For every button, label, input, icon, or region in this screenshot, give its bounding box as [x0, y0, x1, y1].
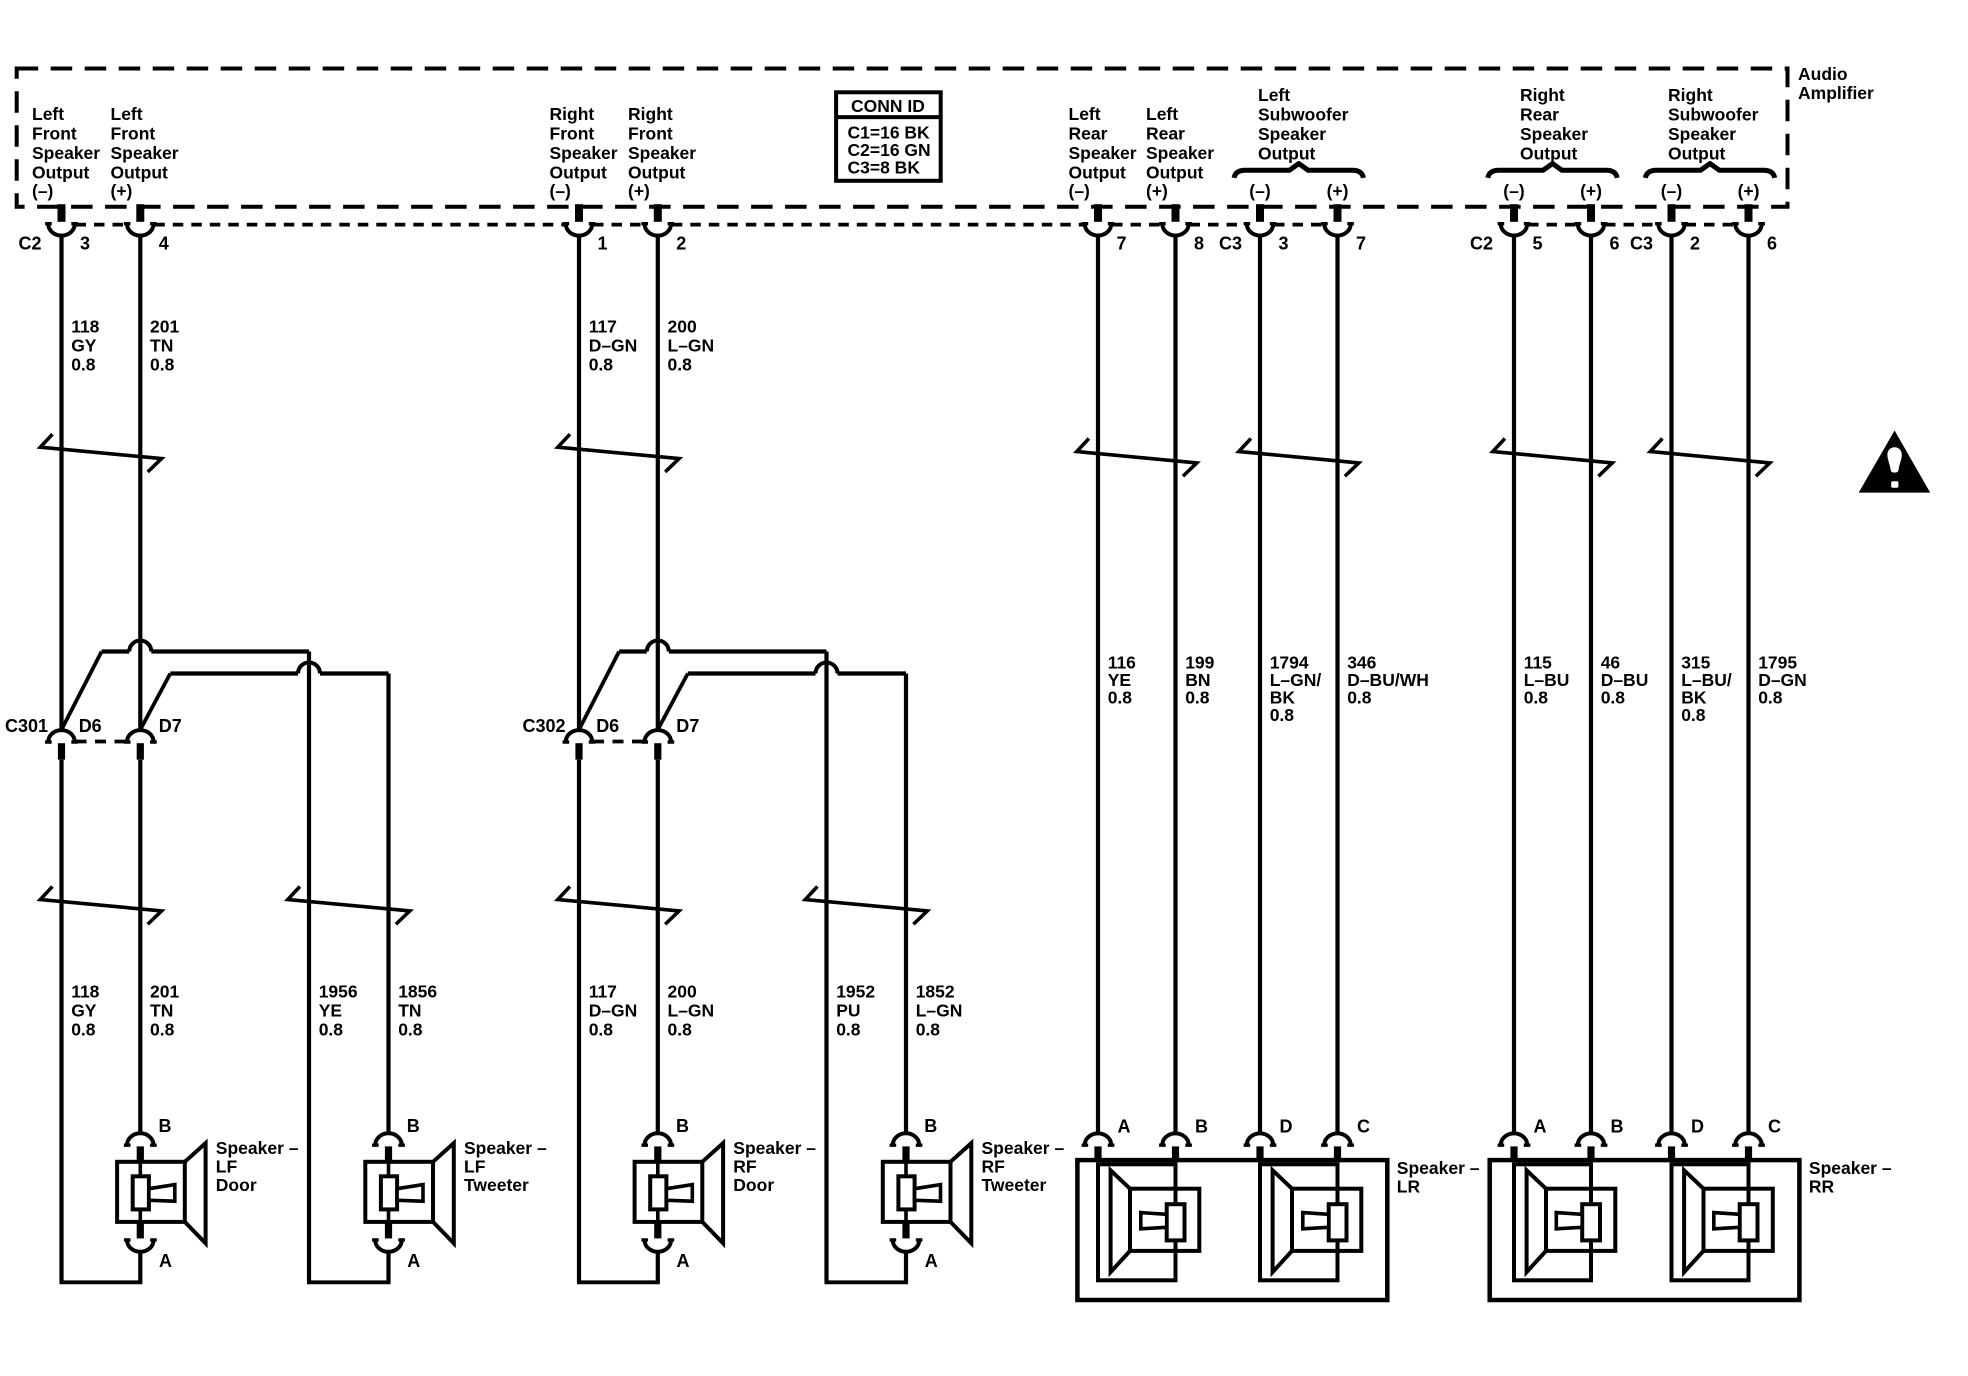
splice line from C302 D6 to tweeter wire: [619, 649, 647, 653]
amp pin 6 at x=1748.5: [1745, 204, 1753, 222]
svg-text:A: A: [925, 1251, 938, 1271]
svg-text:D: D: [1691, 1117, 1704, 1137]
svg-text:Right: Right: [550, 104, 595, 124]
svg-text:Output: Output: [550, 163, 608, 183]
brace right subwoofer speaker output label: [1645, 164, 1774, 178]
svg-text:C: C: [1357, 1117, 1370, 1137]
svg-text:0.8: 0.8: [1524, 688, 1549, 708]
amp pin 6 at x=1591: [1587, 204, 1595, 222]
svg-text:0.8: 0.8: [1758, 688, 1783, 708]
tweeter feed wire 1: [307, 652, 311, 1283]
splice line from C302 D7 to tweeter wire: [688, 671, 816, 675]
speaker RR pin A: [1501, 1133, 1527, 1145]
svg-text:0.8: 0.8: [668, 1020, 693, 1040]
svg-text:B: B: [1611, 1117, 1624, 1137]
break symbol rear pair 1514: [1493, 440, 1613, 475]
svg-text:0.8: 0.8: [150, 1020, 175, 1040]
speaker - RF Door pin A: [654, 1222, 661, 1239]
svg-text:C2: C2: [1470, 234, 1493, 254]
svg-text:(+): (+): [1580, 181, 1602, 201]
amp pin 3 at x=1260: [1256, 204, 1264, 222]
amp pin 4 at x=140.3: [136, 204, 144, 222]
svg-text:Speaker: Speaker: [111, 143, 179, 163]
svg-text:CONN ID: CONN ID: [851, 96, 925, 116]
break symbol upper pair LF: [40, 436, 161, 471]
splice line from C301 D6 to tweeter wire: [102, 649, 130, 653]
svg-text:C301: C301: [5, 716, 48, 736]
speaker - LF Door: [117, 1162, 185, 1222]
wire 118 GY lower segment: [59, 760, 63, 1283]
svg-text:7: 7: [1117, 234, 1127, 254]
svg-text:GY: GY: [71, 1001, 97, 1021]
connector C301 pin D7: [127, 730, 153, 742]
svg-text:Rear: Rear: [1069, 124, 1108, 144]
wire 1795 right subwoofer (+) wire: [1746, 234, 1750, 1134]
amp pin 2 at x=657.8: [654, 204, 662, 222]
diagonal into C302 D7: [658, 674, 687, 729]
svg-text:118: 118: [71, 317, 99, 337]
svg-text:B: B: [407, 1116, 420, 1136]
break symbol rear pair 1260: [1239, 440, 1359, 475]
svg-text:Left: Left: [1069, 104, 1101, 124]
svg-text:Door: Door: [733, 1175, 774, 1195]
svg-text:Output: Output: [32, 163, 90, 183]
svg-text:D–GN: D–GN: [589, 1001, 638, 1021]
svg-text:Output: Output: [1520, 144, 1578, 164]
svg-text:0.8: 0.8: [589, 355, 614, 375]
amp pin 5 at x=1514: [1510, 204, 1518, 222]
svg-text:GY: GY: [71, 336, 97, 356]
speaker - LR left driver: [1098, 1164, 1176, 1280]
svg-text:Subwoofer: Subwoofer: [1668, 105, 1759, 125]
amp pin 1 at x=579: [575, 204, 583, 222]
svg-text:TN: TN: [150, 1001, 173, 1021]
speaker - RR cabinet box: [1490, 1160, 1800, 1300]
svg-text:Speaker: Speaker: [628, 143, 696, 163]
svg-text:A: A: [1118, 1117, 1131, 1137]
svg-text:Speaker: Speaker: [32, 143, 100, 163]
svg-text:(+): (+): [1327, 181, 1349, 201]
svg-text:C2: C2: [19, 234, 42, 254]
svg-text:Output: Output: [1146, 163, 1204, 183]
svg-text:8: 8: [1194, 234, 1204, 254]
svg-text:7: 7: [1356, 234, 1366, 254]
break symbol lower pair RF tweeter: [805, 888, 927, 923]
wire 117 D–GN lower segment: [577, 760, 581, 1283]
warning triangle symbol: [1859, 431, 1931, 493]
svg-text:5: 5: [1533, 234, 1543, 254]
svg-text:Left: Left: [111, 104, 143, 124]
brace left subwoofer speaker output label: [1234, 164, 1363, 178]
svg-text:Rear: Rear: [1146, 124, 1185, 144]
svg-text:1: 1: [598, 234, 608, 254]
svg-text:0.8: 0.8: [398, 1020, 423, 1040]
svg-text:PU: PU: [836, 1001, 860, 1021]
svg-text:Front: Front: [628, 124, 673, 144]
svg-text:(+): (+): [628, 181, 650, 201]
connector C2/C3 dashed line (left section): [76, 223, 1324, 227]
svg-text:3: 3: [1279, 234, 1289, 254]
CONN ID table: [836, 92, 941, 181]
svg-text:Speaker: Speaker: [550, 143, 618, 163]
speaker LR pin D: [1247, 1133, 1273, 1145]
svg-text:Front: Front: [32, 124, 77, 144]
wire 199 left rear (+) wire: [1173, 234, 1177, 1134]
svg-text:(+): (+): [1146, 181, 1168, 201]
svg-text:TN: TN: [398, 1001, 421, 1021]
svg-text:Speaker –: Speaker –: [216, 1138, 299, 1158]
svg-text:A: A: [1534, 1117, 1547, 1137]
svg-text:Speaker –: Speaker –: [982, 1138, 1065, 1158]
wire 117 D-GN upper segment: [577, 234, 581, 731]
svg-text:4: 4: [159, 234, 169, 254]
svg-text:D: D: [1280, 1117, 1293, 1137]
svg-text:Left: Left: [1258, 85, 1290, 105]
svg-text:Output: Output: [628, 163, 686, 183]
svg-text:B: B: [1195, 1117, 1208, 1137]
svg-text:A: A: [677, 1251, 690, 1271]
svg-text:117: 117: [589, 317, 617, 337]
diagonal into C302 D6: [580, 652, 620, 729]
diagonal into C301 D6: [62, 652, 102, 729]
amp pin 2 at x=1671.5: [1668, 204, 1676, 222]
speaker - LF Door pin A: [137, 1222, 144, 1239]
svg-text:6: 6: [1767, 234, 1777, 254]
speaker - RF Tweeter: [883, 1162, 951, 1222]
break symbol lower pair RF door: [558, 888, 679, 923]
amp pin 7 at x=1098: [1094, 204, 1102, 222]
svg-text:Output: Output: [111, 163, 169, 183]
svg-text:0.8: 0.8: [1270, 705, 1295, 725]
speaker - RF Tweeter pin A: [902, 1222, 909, 1239]
svg-text:(+): (+): [1738, 181, 1760, 201]
svg-text:C: C: [1768, 1117, 1781, 1137]
speaker - RR left driver: [1514, 1164, 1591, 1280]
svg-text:L–GN: L–GN: [668, 336, 715, 356]
speaker - RF Tweeter bottom loop wire: [904, 1253, 908, 1283]
svg-text:Speaker: Speaker: [1258, 124, 1326, 144]
svg-text:0.8: 0.8: [1185, 688, 1210, 708]
svg-text:2: 2: [1690, 234, 1700, 254]
svg-text:L–GN: L–GN: [668, 1001, 715, 1021]
svg-text:D7: D7: [159, 716, 182, 736]
splice line from C301 D7 to tweeter wire: [170, 671, 298, 675]
svg-text:(–): (–): [1069, 181, 1090, 201]
svg-text:Rear: Rear: [1520, 105, 1559, 125]
svg-text:1856: 1856: [398, 982, 437, 1002]
svg-text:L–GN: L–GN: [916, 1001, 963, 1021]
svg-text:118: 118: [71, 982, 99, 1002]
svg-text:0.8: 0.8: [668, 355, 693, 375]
svg-text:0.8: 0.8: [150, 355, 175, 375]
svg-text:0.8: 0.8: [1347, 688, 1372, 708]
tweeter feed wire 2: [386, 674, 390, 1134]
wire 46 right rear (+) wire: [1589, 234, 1593, 1134]
svg-text:(–): (–): [32, 181, 53, 201]
svg-text:Tweeter: Tweeter: [982, 1175, 1047, 1195]
svg-text:Speaker: Speaker: [1069, 143, 1137, 163]
svg-text:Left: Left: [1146, 104, 1178, 124]
svg-text:RR: RR: [1809, 1177, 1835, 1197]
amp pin 8 at x=1175.5: [1172, 204, 1180, 222]
wire 201 TN upper segment: [138, 234, 142, 731]
svg-text:D6: D6: [596, 716, 619, 736]
svg-text:Left: Left: [32, 104, 64, 124]
svg-text:Speaker: Speaker: [1520, 124, 1588, 144]
svg-text:Tweeter: Tweeter: [464, 1175, 529, 1195]
svg-text:200: 200: [668, 317, 697, 337]
break symbol lower pair LF tweeter: [288, 888, 410, 923]
svg-text:0.8: 0.8: [1601, 688, 1626, 708]
break symbol upper pair RF: [558, 436, 679, 471]
tweeter feed wire 2: [904, 674, 908, 1134]
speaker RR pin D: [1658, 1133, 1684, 1145]
speaker - LR cabinet box: [1077, 1160, 1387, 1300]
speaker LR pin B: [1162, 1133, 1188, 1145]
svg-text:Speaker: Speaker: [1668, 124, 1736, 144]
svg-text:(+): (+): [111, 181, 133, 201]
svg-text:(–): (–): [1503, 181, 1524, 201]
speaker - LF Tweeter bottom loop wire: [386, 1253, 390, 1283]
break symbol rear pair 1098: [1077, 440, 1197, 475]
svg-text:0.8: 0.8: [1108, 688, 1133, 708]
svg-text:A: A: [159, 1251, 172, 1271]
amp pin 7 at x=1337.5: [1334, 204, 1342, 222]
speaker LR pin C: [1324, 1133, 1350, 1145]
svg-text:Door: Door: [216, 1175, 257, 1195]
svg-text:TN: TN: [150, 336, 173, 356]
svg-text:0.8: 0.8: [71, 355, 96, 375]
svg-text:C3: C3: [1219, 234, 1242, 254]
wire 201 TN lower segment: [138, 760, 142, 1134]
svg-text:D7: D7: [676, 716, 699, 736]
svg-text:C3=8 BK: C3=8 BK: [848, 157, 921, 177]
svg-text:201: 201: [150, 982, 179, 1002]
amp pin 3 at x=61.5: [58, 204, 66, 222]
svg-text:RF: RF: [733, 1157, 757, 1177]
wire 118 GY upper segment: [59, 234, 63, 731]
tweeter feed wire 1: [824, 652, 828, 1283]
svg-text:Front: Front: [550, 124, 595, 144]
wire 200 L-GN upper segment: [656, 234, 660, 731]
brace right rear speaker output label: [1488, 164, 1617, 178]
speaker - LF Tweeter: [365, 1162, 433, 1222]
svg-text:Speaker –: Speaker –: [464, 1138, 547, 1158]
speaker - RF Door: [635, 1162, 703, 1222]
svg-text:(–): (–): [550, 181, 571, 201]
speaker - RF Door pin B: [645, 1133, 671, 1145]
svg-text:(–): (–): [1249, 181, 1270, 201]
svg-text:1952: 1952: [836, 982, 875, 1002]
speaker - LF Door bottom loop wire: [138, 1253, 142, 1283]
svg-text:C3: C3: [1630, 234, 1653, 254]
svg-text:200: 200: [668, 982, 697, 1002]
speaker - RR right driver: [1672, 1164, 1749, 1280]
svg-text:117: 117: [589, 982, 617, 1002]
svg-text:Speaker –: Speaker –: [1397, 1158, 1480, 1178]
svg-text:B: B: [924, 1116, 937, 1136]
svg-text:LR: LR: [1397, 1177, 1421, 1197]
svg-text:201: 201: [150, 317, 179, 337]
svg-text:Output: Output: [1258, 144, 1316, 164]
speaker - RF Door bottom loop wire: [656, 1253, 660, 1283]
speaker - LF Tweeter pin A: [385, 1222, 392, 1239]
svg-text:(–): (–): [1661, 181, 1682, 201]
svg-text:0.8: 0.8: [836, 1020, 861, 1040]
speaker - LF Tweeter pin B: [375, 1133, 401, 1145]
svg-text:Front: Front: [111, 124, 156, 144]
svg-text:YE: YE: [319, 1001, 342, 1021]
speaker - LF Door pin B: [127, 1133, 153, 1145]
connector C2/C3 dashed line (right section): [1528, 223, 1735, 227]
svg-text:1852: 1852: [916, 982, 955, 1002]
svg-text:LF: LF: [216, 1157, 238, 1177]
svg-text:Audio: Audio: [1798, 64, 1848, 84]
speaker LR pin A: [1085, 1133, 1111, 1145]
svg-text:0.8: 0.8: [71, 1020, 96, 1040]
svg-text:Speaker –: Speaker –: [733, 1138, 816, 1158]
svg-text:RF: RF: [982, 1157, 1006, 1177]
break symbol lower pair LF door: [40, 888, 161, 923]
svg-text:0.8: 0.8: [319, 1020, 344, 1040]
svg-text:0.8: 0.8: [1681, 705, 1706, 725]
svg-text:LF: LF: [464, 1157, 486, 1177]
svg-text:6: 6: [1610, 234, 1620, 254]
svg-text:Right: Right: [1668, 85, 1713, 105]
svg-text:B: B: [159, 1116, 172, 1136]
svg-text:C302: C302: [523, 716, 566, 736]
diagonal into C301 D7: [141, 674, 170, 729]
wire 115 right rear (-) wire: [1512, 234, 1516, 1134]
break symbol rear pair 1671.5: [1650, 440, 1770, 475]
svg-text:1956: 1956: [319, 982, 358, 1002]
svg-text:Speaker –: Speaker –: [1809, 1158, 1892, 1178]
svg-text:Right: Right: [628, 104, 673, 124]
speaker RR pin C: [1735, 1133, 1761, 1145]
svg-text:Right: Right: [1520, 85, 1565, 105]
svg-text:3: 3: [80, 234, 90, 254]
svg-text:0.8: 0.8: [916, 1020, 941, 1040]
svg-text:Speaker: Speaker: [1146, 143, 1214, 163]
svg-text:Amplifier: Amplifier: [1798, 83, 1874, 103]
svg-text:Subwoofer: Subwoofer: [1258, 105, 1349, 125]
svg-text:B: B: [676, 1116, 689, 1136]
speaker RR pin B: [1578, 1133, 1604, 1145]
connector C301 dashed line: [76, 740, 127, 744]
speaker - LR right driver: [1260, 1164, 1338, 1280]
wire 346 left subwoofer (+) wire: [1335, 234, 1339, 1134]
connector C302 pin D7: [645, 730, 671, 742]
svg-text:D–GN: D–GN: [589, 336, 638, 356]
connector C301 pin D6: [48, 730, 74, 742]
svg-text:Output: Output: [1069, 163, 1127, 183]
svg-text:0.8: 0.8: [589, 1020, 614, 1040]
svg-text:D6: D6: [79, 716, 102, 736]
svg-text:2: 2: [676, 234, 686, 254]
svg-text:A: A: [407, 1251, 420, 1271]
connector C302 dashed line: [593, 740, 644, 744]
wire 315 right subwoofer (-) wire: [1669, 234, 1673, 1134]
wire 1794 left subwoofer (-) wire: [1258, 234, 1262, 1134]
wire 200 L–GN lower segment: [656, 760, 660, 1134]
svg-text:Output: Output: [1668, 144, 1726, 164]
audio amplifier dashed box: [17, 69, 1788, 207]
connector C302 pin D6: [566, 730, 592, 742]
wire 116 left rear (-) wire: [1096, 234, 1100, 1134]
speaker - RF Tweeter pin B: [893, 1133, 919, 1145]
